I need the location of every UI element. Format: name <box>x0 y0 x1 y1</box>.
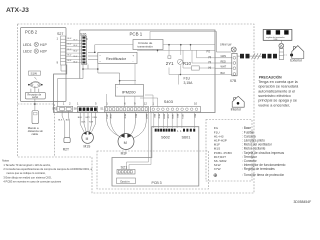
fuse F1U <box>192 66 200 70</box>
PCB 2 box <box>21 28 67 102</box>
svg-text:RED: RED <box>124 114 126 119</box>
svg-text:LED1: LED1 <box>23 43 32 47</box>
svg-text:PCB 3: PCB 3 <box>152 181 162 185</box>
svg-text:10: 10 <box>194 101 198 105</box>
svg-text:operación se reanudará: operación se reanudará <box>258 85 299 89</box>
svg-text:GRN: GRN <box>221 55 227 58</box>
svg-text:M: M <box>124 141 127 145</box>
svg-text:(H): (H) <box>208 67 211 69</box>
cable to exterior <box>240 54 277 59</box>
svg-text:BLU: BLU <box>176 114 178 119</box>
svg-text:X7B: X7B <box>230 79 237 83</box>
svg-text:WHT: WHT <box>145 114 147 119</box>
terminal block X1M <box>263 30 292 41</box>
legend values <box>242 126 286 177</box>
svg-text:H1P: H1P <box>40 43 47 47</box>
svg-text:Opción: Opción <box>120 179 130 183</box>
svg-text:YLW: YLW <box>89 122 93 124</box>
svg-text:S1W: S1W <box>31 72 38 76</box>
house Exterior <box>292 46 304 59</box>
wires S27-S26 with BLU labels <box>68 38 78 64</box>
M1F wires <box>107 112 147 139</box>
svg-text:BLU: BLU <box>134 114 136 119</box>
outer unit dashed boundary <box>18 24 255 193</box>
svg-text:LED2: LED2 <box>23 50 32 54</box>
svg-text:S403: S403 <box>164 99 173 104</box>
svg-text:suministro eléctrico: suministro eléctrico <box>258 94 291 98</box>
remote compartment partition <box>18 104 55 157</box>
svg-text:ORG: ORG <box>181 114 183 119</box>
svg-text:BLU: BLU <box>78 117 83 119</box>
thermistor R2T <box>64 138 70 143</box>
svg-text:Interior: Interior <box>231 108 242 112</box>
svg-text:2 Consulte las especificacio: 2 Consulte las especificaciones de compr… <box>3 167 92 171</box>
thermistor R2T wires <box>62 111 69 137</box>
svg-text:GRY: GRY <box>85 117 90 119</box>
svg-text:Tenga en cuenta que la: Tenga en cuenta que la <box>258 80 298 84</box>
svg-text:RED: RED <box>221 60 226 63</box>
svg-text:transmisión: transmisión <box>138 45 154 49</box>
coil MR10 <box>178 59 183 64</box>
svg-text:automáticamente si el: automáticamente si el <box>258 89 295 93</box>
svg-text:PRECAUCIÓN: PRECAUCIÓN <box>259 74 282 79</box>
svg-text:S602: S602 <box>161 135 170 139</box>
svg-text:FG: FG <box>207 50 211 54</box>
svg-text:: Regleta de terminales: : Regleta de terminales <box>242 167 275 171</box>
legend dashed box <box>206 120 252 182</box>
svg-text:PCB 2: PCB 2 <box>25 30 38 35</box>
svg-text:: Toma de tierra de protección: : Toma de tierra de protección <box>242 173 284 177</box>
svg-text:IPM200: IPM200 <box>122 89 137 94</box>
svg-text:12: 12 <box>144 101 148 105</box>
LED1 H1P <box>23 42 47 47</box>
svg-text:S21: S21 <box>121 165 128 169</box>
notes <box>2 158 92 183</box>
connector X7B <box>232 53 237 76</box>
svg-text:3 Este dibujo se realizó con: 3 Este dibujo se realizó con sistema CKD… <box>3 175 52 179</box>
svg-text:ORG: ORG <box>106 114 108 119</box>
svg-text:X1M: X1M <box>274 39 278 41</box>
junction dots <box>119 44 192 82</box>
svg-text:3,15A: 3,15A <box>184 81 194 85</box>
svg-text:ATX-J3: ATX-J3 <box>6 7 29 14</box>
svg-text:Exterior: Exterior <box>290 59 303 63</box>
svg-text:ORG: ORG <box>92 117 97 119</box>
svg-text:PCB 1: PCB 1 <box>130 31 143 36</box>
PCB3 solid polygon <box>112 127 199 186</box>
switch S1W symbol <box>29 77 43 92</box>
transmission circuit box U2 <box>133 40 163 50</box>
svg-text:1 Tamaño 70 de longitud x 12: 1 Tamaño 70 de longitud x 120 de ancho, <box>3 163 51 167</box>
screw terminal right <box>279 43 284 48</box>
svg-text:S601: S601 <box>182 135 191 139</box>
svg-text:3D058454F: 3D058454F <box>294 200 312 204</box>
svg-text:YLW: YLW <box>109 114 111 118</box>
svg-text:RED: RED <box>158 114 160 119</box>
varistor 2Y1 <box>168 56 171 59</box>
svg-text:GRN: GRN <box>171 114 173 119</box>
motor M1F <box>118 134 134 150</box>
PCB3 dashed box <box>97 151 209 189</box>
svg-text:S1: S1 <box>100 106 104 110</box>
connector S602 <box>155 129 176 132</box>
svg-text:M1S: M1S <box>84 145 92 149</box>
svg-text:GRN/YLW: GRN/YLW <box>220 43 232 46</box>
svg-text:señal: señal <box>32 96 38 99</box>
svg-text:Notas: Notas <box>2 158 9 162</box>
wire box to screw right <box>281 40 283 43</box>
Opcion label <box>117 178 136 184</box>
svg-text:BLU: BLU <box>74 51 78 53</box>
svg-text:BLK: BLK <box>221 72 226 75</box>
svg-text:F1U: F1U <box>184 76 191 80</box>
svg-text:BLK: BLK <box>194 114 196 119</box>
svg-text:BLK: BLK <box>66 119 71 121</box>
switch label S1W <box>29 71 41 75</box>
svg-text:WHT: WHT <box>221 66 227 69</box>
screw terminal left <box>231 47 236 52</box>
wires S403 to S21 <box>127 113 152 170</box>
svg-text:2Y1: 2Y1 <box>166 61 174 66</box>
svg-text:M: M <box>86 137 89 141</box>
svg-text:BLK: BLK <box>58 119 63 121</box>
legend keys <box>214 126 232 171</box>
svg-text:WHT: WHT <box>163 114 165 119</box>
svg-text:M1F: M1F <box>121 152 128 156</box>
power module IPM200 <box>115 85 143 97</box>
svg-text:R10: R10 <box>183 61 192 66</box>
house Interior <box>232 96 244 107</box>
wire down to remote <box>34 99 36 111</box>
svg-text:R2T: R2T <box>63 148 69 152</box>
signal receiver box <box>25 92 45 99</box>
svg-text:menos que se indique lo contra: menos que se indique lo contrario, <box>6 171 46 175</box>
M1S wires <box>80 112 95 132</box>
svg-text:YLW: YLW <box>167 114 169 118</box>
svg-text:BLU: BLU <box>68 44 72 46</box>
svg-text:BLK: BLK <box>82 122 87 124</box>
motor M1S <box>82 132 94 144</box>
svg-text:Rectificador: Rectificador <box>106 57 127 61</box>
LED2 H2P <box>23 49 47 54</box>
svg-text:BLK: BLK <box>153 114 155 119</box>
svg-text:-: - <box>133 60 134 64</box>
svg-text:BLU: BLU <box>68 60 72 62</box>
rectifier box D1 <box>98 52 137 63</box>
wires below S26 / to rectifier <box>58 45 136 107</box>
svg-text:H2P: H2P <box>40 50 47 54</box>
remote controller <box>32 111 39 124</box>
GRN/YLW earth wire <box>217 32 232 53</box>
PCB1 wire mesh <box>95 32 232 107</box>
svg-text:4 PCB3 se muestra en caso de: 4 PCB3 se muestra en caso de conectar op… <box>3 180 61 184</box>
svg-text:BLU: BLU <box>68 38 72 40</box>
svg-text:(H): (H) <box>208 57 211 59</box>
svg-text:(H): (H) <box>208 62 211 64</box>
wires S403 to S602/S601 with labels <box>154 112 195 128</box>
PCB 1 outline <box>54 30 215 113</box>
svg-text:vuelve a encender,: vuelve a encender, <box>258 103 290 107</box>
svg-text:cable: cable <box>32 132 39 136</box>
svg-text:principal se apaga y se: principal se apaga y se <box>258 99 297 103</box>
wires to X7B <box>215 58 232 68</box>
svg-text:X7W: X7W <box>214 167 221 171</box>
